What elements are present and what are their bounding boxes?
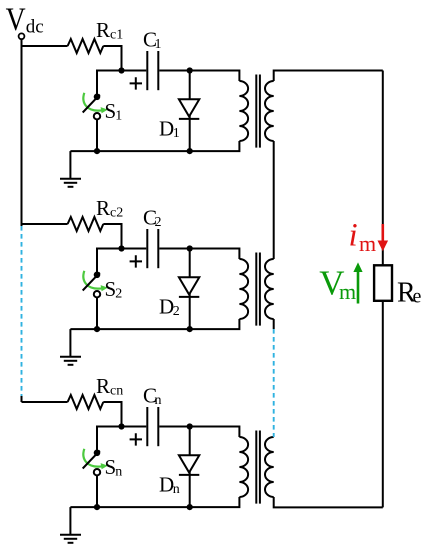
wire node to switch Sn: [97, 427, 122, 453]
transformer T1 core: [256, 75, 260, 148]
wire secondary n to output bottom: [274, 497, 383, 507]
node junction capacitor/diode/transformer: [187, 67, 193, 73]
capacitor C1: [146, 51, 148, 90]
junction switch/ground: [94, 326, 100, 332]
transformer T2 primary winding: [239, 259, 248, 319]
resistor Rc1: [68, 39, 104, 53]
plus polarity mark: [130, 433, 142, 445]
wire left rail dashed link: [21, 226, 23, 396]
wire dashed link secondary 2 to secondary n: [273, 329, 275, 437]
wire resistor to node: [103, 224, 121, 249]
svg-text:1: 1: [155, 37, 162, 52]
svg-text:n: n: [115, 464, 122, 479]
node junction resistor/capacitor/switch: [118, 67, 124, 73]
resistor Rcn: [68, 395, 104, 409]
svg-text:c2: c2: [110, 205, 123, 220]
wire node to switch S2: [97, 249, 122, 275]
wire ground rail: [70, 141, 239, 151]
junction switch/ground: [94, 504, 100, 510]
wire node to transformer primary: [190, 427, 240, 438]
svg-text:e: e: [413, 286, 422, 308]
wire output right rail upper: [382, 71, 384, 266]
voltage arrow Vm: [357, 271, 360, 304]
svg-text:2: 2: [173, 304, 180, 319]
wire ground rail: [70, 319, 239, 329]
node junction capacitor/diode/transformer: [187, 423, 193, 429]
wire switch to ground rail: [96, 120, 98, 152]
node junction capacitor/diode/transformer: [187, 245, 193, 251]
svg-text:n: n: [155, 393, 162, 408]
wire diode branch: [189, 71, 191, 152]
diode Dn: [179, 455, 199, 472]
svg-text:R: R: [96, 374, 110, 398]
wire node to transformer primary: [190, 71, 240, 82]
capacitor C2: [146, 229, 148, 268]
wire node to capacitor C1: [122, 70, 147, 72]
svg-text:2: 2: [115, 286, 122, 301]
transformer T2 core: [256, 253, 260, 326]
wire output right rail lower: [382, 301, 384, 508]
wire diode branch: [189, 249, 191, 330]
wire left rail solid: [21, 39, 23, 226]
junction diode/ground: [187, 148, 193, 154]
svg-text:c1: c1: [110, 27, 123, 42]
node junction resistor/capacitor/switch: [118, 245, 124, 251]
resistor Rc2: [68, 217, 104, 231]
current arrow im: [381, 224, 384, 242]
transformer Tn secondary winding: [265, 437, 274, 497]
capacitor Cn: [146, 407, 148, 446]
svg-text:R: R: [96, 196, 110, 220]
wire diode branch: [189, 427, 191, 508]
switch Sn: [83, 451, 100, 469]
terminal Vdc: [19, 33, 25, 39]
wire secondary 2 lower stub: [273, 319, 275, 329]
svg-text:i: i: [349, 218, 358, 254]
wire stage n input branch: [22, 401, 68, 403]
wire node to capacitor C2: [122, 248, 147, 250]
wire stage 1 input branch: [22, 45, 68, 47]
wire capacitor to diode node: [159, 248, 189, 250]
wire node to transformer primary: [190, 249, 240, 260]
transformer Tn core: [256, 431, 260, 504]
svg-text:R: R: [96, 18, 110, 42]
junction diode/ground: [187, 504, 193, 510]
wire node to capacitor Cn: [122, 426, 147, 428]
wire switch to ground rail: [96, 298, 98, 330]
wire capacitor to diode node: [159, 70, 189, 72]
plus polarity mark: [130, 77, 142, 89]
wire stage 2 input branch: [22, 223, 68, 225]
wire resistor to node: [103, 46, 121, 71]
svg-text:n: n: [173, 482, 180, 497]
resistor Re load box: [374, 265, 392, 301]
wire secondary 1 to output top: [274, 71, 383, 82]
diode D1: [179, 99, 199, 116]
wire node to switch S1: [97, 71, 122, 97]
wire ground rail: [70, 497, 239, 507]
svg-text:dc: dc: [26, 17, 44, 38]
svg-text:1: 1: [115, 108, 122, 123]
wire secondary 1 to secondary 2: [273, 141, 275, 259]
junction switch/ground: [94, 148, 100, 154]
svg-text:V: V: [6, 1, 26, 38]
junction diode/ground: [187, 326, 193, 332]
svg-text:m: m: [359, 231, 376, 256]
switch Sn green actuation arrow: [83, 449, 102, 467]
wire capacitor to diode node: [159, 426, 189, 428]
switch S1: [83, 95, 100, 113]
transformer T1 secondary winding: [265, 81, 274, 141]
switch S1 green actuation arrow: [83, 93, 102, 111]
ground: [69, 329, 71, 356]
svg-text:1: 1: [173, 126, 180, 141]
wire left rail lower stub: [21, 396, 23, 402]
svg-text:2: 2: [155, 215, 162, 230]
switch S2: [83, 273, 100, 291]
diode D2: [179, 277, 199, 294]
transformer T1 primary winding: [239, 81, 248, 141]
node junction resistor/capacitor/switch: [118, 423, 124, 429]
svg-text:m: m: [339, 279, 356, 304]
ground: [69, 151, 71, 178]
wire switch to ground rail: [96, 476, 98, 508]
transformer T2 secondary winding: [265, 259, 274, 319]
switch S2 green actuation arrow: [83, 271, 102, 289]
wire resistor to node: [103, 402, 121, 427]
transformer Tn primary winding: [239, 437, 248, 497]
svg-text:cn: cn: [110, 383, 123, 398]
plus polarity mark: [130, 255, 142, 267]
ground: [69, 507, 71, 534]
